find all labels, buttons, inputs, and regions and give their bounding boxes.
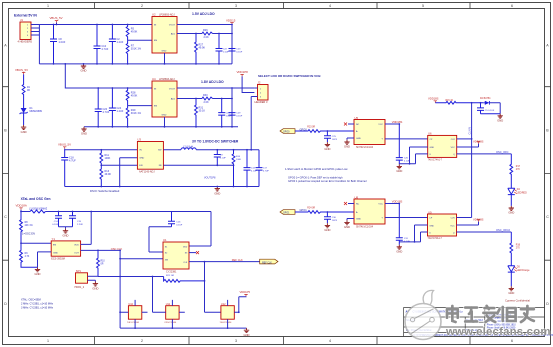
resistor R15 bbox=[435, 101, 483, 104]
wire R8 to Y1 EN bbox=[21, 242, 51, 244]
wire Y1 OUT bbox=[81, 249, 121, 251]
wire header pin3 to DCDC out bbox=[251, 97, 257, 150]
wire U4 GND stem bbox=[164, 117, 166, 127]
svg-text:GPO0: GPO0 bbox=[283, 132, 290, 134]
wire U3 pin2 tie bbox=[120, 158, 138, 187]
svg-text:R23 0R: R23 0R bbox=[307, 127, 315, 129]
svg-text:VCC: VCC bbox=[378, 204, 383, 206]
diode D2 bbox=[485, 101, 489, 105]
inductor L2 bbox=[164, 149, 182, 151]
wire U2 ADJ bbox=[177, 33, 232, 35]
wire VBUS feed to rail 2 bbox=[65, 64, 152, 88]
svg-text:6: 6 bbox=[511, 4, 513, 8]
capacitor C29 bbox=[229, 113, 236, 116]
svg-text:EN: EN bbox=[154, 105, 157, 107]
ground SP1 bbox=[92, 282, 98, 291]
LED D4 bbox=[508, 188, 515, 206]
svg-text:REF CLK: REF CLK bbox=[262, 262, 272, 264]
LED D5 bbox=[508, 266, 515, 287]
svg-text:GPO0 1 pulsed low coupled out: GPO0 1 pulsed low coupled out an Error C… bbox=[288, 179, 367, 183]
svg-text:D2 BAT54: D2 BAT54 bbox=[480, 97, 491, 100]
svg-text:74LVC1G34: 74LVC1G34 bbox=[220, 322, 233, 324]
wire Y1 GND to ground bbox=[38, 252, 52, 267]
svg-text:C5 0.1UF: C5 0.1UF bbox=[485, 110, 495, 112]
svg-text:VDD18A: VDD18A bbox=[16, 204, 27, 208]
ground C25 bbox=[324, 142, 330, 151]
svg-text:0.1UF: 0.1UF bbox=[251, 171, 258, 173]
wire U2 VOUT to VDD15 bbox=[177, 25, 232, 64]
wire R11/R13 junction to U3 EN bbox=[101, 164, 137, 166]
resistor R29 bbox=[126, 106, 129, 127]
capacitor C12 bbox=[109, 25, 116, 64]
svg-text:J2: J2 bbox=[258, 81, 261, 85]
no connect X on U1 bbox=[189, 252, 196, 254]
svg-text:49.9K: 49.9K bbox=[131, 31, 138, 34]
wire U8 GND pin bbox=[347, 219, 354, 221]
svg-text:CLR: CLR bbox=[451, 218, 456, 220]
watermark logo slashes bbox=[411, 309, 434, 335]
svg-text:1: 1 bbox=[47, 339, 49, 343]
capacitor C28 bbox=[218, 99, 225, 127]
svg-text:R15 1K: R15 1K bbox=[446, 100, 454, 102]
wire buffers ground rail bbox=[120, 327, 246, 329]
resistor R11 bbox=[100, 150, 103, 166]
wire clk branch to buffer U12 bbox=[205, 262, 221, 313]
svg-text:3 MHz: CY23B1, c1=10 MHz: 3 MHz: CY23B1, c1=10 MHz bbox=[21, 306, 54, 309]
svg-text:74LVC1G34: 74LVC1G34 bbox=[127, 322, 140, 324]
wire U8 VCC to VDD18S bbox=[385, 203, 399, 205]
svg-text:D: D bbox=[546, 302, 549, 306]
wire U9 GND tie bbox=[399, 225, 427, 242]
svg-text:10PF: 10PF bbox=[332, 139, 338, 141]
svg-text:2: 2 bbox=[141, 339, 143, 343]
svg-text:VDD18S: VDD18S bbox=[392, 200, 403, 204]
svg-text:C: C bbox=[4, 215, 7, 219]
svg-text:R30: R30 bbox=[203, 94, 208, 97]
svg-text:1-Shot Latch to Monitor GPO0 a: 1-Shot Latch to Monitor GPO0 and GPO1 pu… bbox=[285, 167, 348, 171]
svg-text:GND: GND bbox=[53, 252, 58, 254]
border row letters bbox=[4, 44, 549, 307]
svg-text:L2 6.8uH: L2 6.8uH bbox=[183, 146, 193, 149]
junction dots buffers bbox=[119, 258, 240, 329]
svg-text:1=OSC EN: 1=OSC EN bbox=[22, 231, 35, 235]
svg-text:0R: 0R bbox=[27, 90, 30, 92]
svg-text:R21 1M: R21 1M bbox=[166, 275, 174, 277]
svg-text:EN: EN bbox=[53, 244, 56, 246]
wire VBUS vertical join bbox=[38, 25, 40, 64]
wire dcdc input rail bbox=[65, 149, 138, 150]
resistor R9 bbox=[20, 243, 38, 267]
wire R5/R7 junction to U2 EN bbox=[128, 39, 152, 41]
wire ground rail 1 bbox=[39, 63, 232, 65]
svg-text:2.0K: 2.0K bbox=[204, 101, 209, 104]
wire U6 D tie low bbox=[410, 154, 428, 164]
junction dots U2 output bbox=[164, 24, 233, 65]
capacitor C20 bbox=[95, 88, 102, 127]
capacitor C24 bbox=[109, 88, 116, 127]
junction dots xtal bbox=[20, 211, 121, 252]
svg-text:4.7UF: 4.7UF bbox=[263, 171, 270, 173]
wire U5 Y to U6 CP bbox=[385, 138, 428, 140]
ground U8 bbox=[344, 220, 350, 229]
svg-text:2.0K: 2.0K bbox=[204, 36, 209, 39]
svg-text:MMSZ4689: MMSZ4689 bbox=[30, 110, 43, 113]
resistor R17 bbox=[510, 154, 513, 188]
svg-text:XTAL: OSC=SEM: XTAL: OSC=SEM bbox=[21, 299, 41, 302]
svg-text:CLR: CLR bbox=[451, 139, 456, 141]
watermark chinese glyphs bbox=[447, 306, 534, 322]
svg-text:External 5V IN: External 5V IN bbox=[14, 14, 37, 18]
capacitor C17 bbox=[256, 150, 263, 187]
svg-text:ECS-3953M: ECS-3953M bbox=[51, 258, 65, 261]
resistor R5 bbox=[126, 25, 129, 41]
svg-text:VCC: VCC bbox=[451, 147, 456, 149]
ground R9 bbox=[35, 267, 41, 276]
svg-text:R10: R10 bbox=[101, 261, 106, 263]
wire caps gnd tie bbox=[59, 227, 73, 229]
svg-text:ADJ: ADJ bbox=[171, 97, 175, 100]
wire U5 GND pin bbox=[347, 138, 354, 140]
junction dots latch2 bbox=[327, 203, 416, 243]
svg-text:VOUT: VOUT bbox=[169, 88, 176, 90]
svg-text:100K: 100K bbox=[236, 159, 242, 161]
svg-text:AAT1143-ADJ: AAT1143-ADJ bbox=[139, 171, 155, 174]
svg-text:49.9K: 49.9K bbox=[199, 47, 206, 50]
resistor R23 bbox=[295, 130, 354, 133]
ground RC network bbox=[497, 114, 503, 123]
capacitor C15 bbox=[69, 212, 76, 227]
svg-text:GND: GND bbox=[429, 226, 434, 228]
wire U1 VDD drop bbox=[189, 212, 211, 247]
ground rail 1 symbol bbox=[81, 64, 87, 73]
wire R21 tap vertical bbox=[152, 277, 154, 313]
svg-text:VDD15: VDD15 bbox=[226, 19, 236, 23]
wire VBUS 5V top rail bbox=[39, 24, 152, 26]
svg-text:VBUS_5V: VBUS_5V bbox=[50, 16, 63, 20]
wire U8 Y to U9 CP bbox=[385, 217, 428, 219]
resistor R27 bbox=[195, 34, 198, 64]
svg-text:1.0UF: 1.0UF bbox=[59, 41, 66, 44]
svg-text:EN: EN bbox=[154, 40, 157, 42]
ground C31 bbox=[396, 245, 402, 254]
resistor R21 bbox=[164, 277, 205, 283]
svg-text:GND: GND bbox=[162, 51, 167, 53]
svg-text:OSC_OFC: OSC_OFC bbox=[496, 150, 509, 154]
wire ground rail 2 bbox=[84, 126, 238, 128]
resistor R24 bbox=[295, 211, 354, 214]
svg-text:49.9K: 49.9K bbox=[105, 173, 112, 176]
resistor R7 bbox=[126, 40, 129, 64]
capacitor C31 bbox=[396, 204, 403, 245]
svg-text:74LVC74A1-7: 74LVC74A1-7 bbox=[428, 159, 443, 162]
ferrite bead L3 bbox=[21, 211, 30, 213]
svg-text:301K 1%: 301K 1% bbox=[131, 48, 142, 51]
capacitor C26 bbox=[396, 124, 403, 164]
resistor R28 bbox=[126, 88, 129, 106]
border column ticks bbox=[95, 3, 471, 345]
svg-text:4 HEADER5: 4 HEADER5 bbox=[18, 39, 33, 43]
junction dots rail 1 bbox=[53, 24, 129, 65]
svg-text:GND: GND bbox=[356, 138, 361, 140]
svg-text:5: 5 bbox=[422, 4, 424, 8]
resistor R16 bbox=[510, 232, 513, 266]
svg-text:VBUS_5V: VBUS_5V bbox=[15, 68, 28, 72]
resistor R8 bbox=[20, 212, 23, 244]
wire ground rail 3 bbox=[65, 186, 259, 188]
svg-text:U2: U2 bbox=[152, 13, 156, 17]
resistor R31 bbox=[195, 99, 198, 127]
resistor R26 bbox=[202, 32, 213, 35]
wire U1 CLK out to REF CLK port bbox=[189, 261, 260, 263]
wire osc distribution bbox=[98, 276, 164, 278]
svg-text:EN: EN bbox=[139, 165, 142, 167]
no connect U5 bbox=[348, 123, 354, 125]
svg-text:CLK: CLK bbox=[183, 262, 188, 264]
resistor R13 bbox=[100, 165, 103, 186]
svg-text:GND: GND bbox=[139, 158, 144, 160]
capacitor C13 bbox=[244, 150, 251, 187]
border row ticks bbox=[3, 87, 551, 261]
svg-text:VDD: VDD bbox=[183, 247, 188, 249]
svg-text:100K: 100K bbox=[105, 157, 111, 160]
svg-text:SN74LVC1G04: SN74LVC1G04 bbox=[356, 146, 374, 149]
capacitor C16 bbox=[168, 212, 175, 227]
svg-text:VDD1P5: VDD1P5 bbox=[240, 290, 251, 294]
svg-text:VDD18S: VDD18S bbox=[392, 120, 403, 124]
wire U9 VCC to VDD18S bbox=[457, 222, 479, 225]
svg-text:6: 6 bbox=[511, 339, 513, 343]
wire CLKIN vertical bbox=[471, 103, 473, 218]
svg-text:VOUT: VOUT bbox=[169, 24, 176, 26]
svg-text:1.2UF: 1.2UF bbox=[117, 110, 124, 113]
capacitor C27 bbox=[477, 103, 500, 114]
svg-text:GND: GND bbox=[162, 115, 167, 117]
svg-text:1.8V ADJ LDO: 1.8V ADJ LDO bbox=[201, 80, 224, 84]
svg-text:LED/Orange: LED/Orange bbox=[517, 269, 530, 272]
svg-text:CLKIN: CLKIN bbox=[468, 127, 471, 135]
title block outline bbox=[404, 307, 545, 336]
svg-text:CY22381: CY22381 bbox=[166, 270, 177, 273]
svg-text:4: 4 bbox=[329, 339, 331, 343]
svg-text:OUT: OUT bbox=[74, 252, 79, 254]
svg-text:HEADER 3: HEADER 3 bbox=[255, 100, 269, 104]
capacitor C22 bbox=[216, 34, 223, 64]
svg-text:2.2UF: 2.2UF bbox=[77, 224, 84, 226]
svg-text:REF CLK: REF CLK bbox=[232, 258, 243, 262]
wire SP1 pin2 to ground bbox=[88, 280, 96, 281]
svg-text:VBUS_5V: VBUS_5V bbox=[58, 143, 71, 147]
svg-text:www.elecfans.com: www.elecfans.com bbox=[445, 326, 551, 338]
svg-text:XTaL and OSC Gen: XTaL and OSC Gen bbox=[21, 197, 51, 201]
ground D5 bbox=[508, 286, 514, 295]
wire header pin1 bbox=[254, 87, 257, 89]
svg-text:R16: R16 bbox=[516, 245, 521, 247]
wire J1 pins to bus bbox=[31, 25, 39, 36]
watermark logo small circles bbox=[411, 318, 415, 322]
svg-text:D: D bbox=[4, 302, 7, 306]
svg-text:2 MHz: CY23B1, c1=10 MHz: 2 MHz: CY23B1, c1=10 MHz bbox=[21, 303, 54, 306]
svg-text:2: 2 bbox=[141, 4, 143, 8]
wire U6 VCC to VDD18S bbox=[457, 144, 479, 147]
svg-text:1.5V ADJ LDO: 1.5V ADJ LDO bbox=[192, 12, 215, 16]
svg-text:GPO0 1= GPO0-1: Pass DEF set t: GPO0 1= GPO0-1: Pass DEF set to stable h… bbox=[288, 175, 343, 179]
port GPIO1 bbox=[280, 210, 295, 215]
svg-text:74LVC1G34: 74LVC1G34 bbox=[164, 322, 177, 324]
watermark logo circle bbox=[423, 290, 433, 305]
svg-text:GPO1: GPO1 bbox=[283, 213, 290, 215]
wire U6 Q out bbox=[457, 153, 512, 155]
svg-text:30.1K: 30.1K bbox=[199, 110, 206, 113]
capacitor C25 bbox=[324, 131, 331, 142]
wire VDD18A rail bbox=[45, 211, 211, 213]
resistor R30 bbox=[202, 97, 213, 100]
svg-text:1: 1 bbox=[47, 4, 49, 8]
resistor R14 bbox=[232, 150, 235, 187]
ground U5 bbox=[344, 140, 350, 149]
svg-text:0.1UF: 0.1UF bbox=[52, 224, 59, 226]
ground rail 3 symbol bbox=[214, 187, 220, 196]
svg-text:C: C bbox=[546, 215, 549, 219]
svg-text:DS=0: Switcher Enabled: DS=0: Switcher Enabled bbox=[90, 189, 120, 193]
svg-text:HDR1_2: HDR1_2 bbox=[75, 286, 85, 289]
svg-text:VDD1P8: VDD1P8 bbox=[237, 70, 249, 74]
svg-text:R24 0R: R24 0R bbox=[307, 208, 315, 210]
wire SP1 pin1 bbox=[88, 275, 99, 277]
svg-text:VCC: VCC bbox=[450, 226, 455, 228]
wire U2 GND stem bbox=[164, 53, 166, 64]
junction dots latch1 bbox=[327, 102, 482, 165]
port REF CLK bbox=[260, 259, 278, 264]
ground buffers bbox=[244, 328, 250, 337]
svg-text:0.1UF: 0.1UF bbox=[176, 224, 183, 226]
svg-text:0.1UF: 0.1UF bbox=[236, 116, 243, 118]
capacitor C10 bbox=[94, 25, 101, 64]
wire U4 ADJ bbox=[177, 98, 232, 100]
svg-text:VCC: VCC bbox=[378, 124, 383, 126]
svg-text:74LVC74A1-7: 74LVC74A1-7 bbox=[428, 237, 443, 240]
capacitor C23 bbox=[229, 49, 236, 52]
ground C26 bbox=[396, 164, 402, 173]
ground D4 bbox=[508, 206, 514, 215]
svg-text:3: 3 bbox=[235, 339, 237, 343]
svg-text:OSC_OFC2: OSC_OFC2 bbox=[496, 228, 511, 232]
svg-text:VDD: VDD bbox=[74, 244, 79, 246]
wire U4 VOUT to select header bbox=[177, 88, 254, 127]
svg-text:1.0UF: 1.0UF bbox=[223, 51, 230, 53]
ground xtal caps bbox=[63, 229, 69, 238]
svg-text:301K 1%: 301K 1% bbox=[131, 112, 142, 115]
svg-text:LED/RED: LED/RED bbox=[517, 192, 527, 194]
svg-text:VDD18S: VDD18S bbox=[428, 96, 439, 100]
svg-text:VOUT1P8: VOUT1P8 bbox=[204, 177, 216, 180]
svg-text:0R: 0R bbox=[101, 264, 104, 266]
svg-text:ADJ: ADJ bbox=[171, 32, 175, 35]
wire Y1 VDD bbox=[81, 212, 92, 245]
svg-text:10PF: 10PF bbox=[332, 220, 338, 222]
svg-text:3: 3 bbox=[235, 4, 237, 8]
port GPIO0 bbox=[280, 129, 295, 134]
svg-text:NC: NC bbox=[356, 124, 360, 126]
wire C16 gnd return bbox=[149, 227, 172, 252]
wire VDD1P8 to header pin2 bbox=[242, 76, 254, 92]
ground D1 bbox=[21, 125, 27, 134]
wire clk into U1 bbox=[120, 258, 163, 260]
wire U9 CLR to CLKIN bbox=[457, 217, 472, 219]
svg-text:R26: R26 bbox=[203, 29, 208, 32]
no connect U8 bbox=[348, 203, 354, 205]
resistor R1 bbox=[22, 74, 25, 106]
capacitor C8 bbox=[50, 25, 57, 64]
ground rail 2 symbol bbox=[81, 127, 87, 136]
resistor R10 bbox=[97, 250, 100, 276]
svg-text:4.7UF: 4.7UF bbox=[102, 48, 109, 51]
svg-text:0.1UF: 0.1UF bbox=[236, 51, 243, 53]
wire U6 GND tie bbox=[399, 147, 427, 164]
junction dots dcdc bbox=[100, 149, 252, 188]
svg-text:L3 620@100MHZ: L3 620@100MHZ bbox=[29, 209, 48, 211]
svg-text:4.7UF: 4.7UF bbox=[103, 111, 110, 114]
svg-text:1.2UF: 1.2UF bbox=[117, 41, 124, 44]
wire U5 VCC to VDD18S bbox=[385, 123, 399, 125]
svg-text:0.1UF: 0.1UF bbox=[220, 158, 227, 160]
title block address bbox=[487, 313, 517, 329]
svg-text:GND: GND bbox=[356, 219, 361, 221]
svg-text:Cypress Confidential: Cypress Confidential bbox=[505, 298, 530, 302]
wire dcdc output rail bbox=[196, 149, 259, 151]
svg-text:NC: NC bbox=[356, 204, 360, 206]
svg-text:4: 4 bbox=[329, 4, 331, 8]
svg-text:3V TO 1.8VDC-DC SWITCHER: 3V TO 1.8VDC-DC SWITCHER bbox=[192, 140, 239, 144]
svg-text:4.7K: 4.7K bbox=[25, 256, 30, 258]
svg-text:GND: GND bbox=[430, 147, 435, 149]
svg-text:R17: R17 bbox=[516, 166, 521, 168]
wire R28/R29 junction to U4 EN bbox=[128, 105, 152, 107]
wire clk vertical bus bbox=[119, 250, 121, 328]
capacitor C30 bbox=[324, 212, 331, 223]
wire VDD1P5 stub bbox=[239, 296, 246, 312]
svg-text:SN74LVC1G04: SN74LVC1G04 bbox=[356, 225, 374, 228]
svg-text:SELECT LDO OR DC/DC SWITCHER I: SELECT LDO OR DC/DC SWITCHER IN VCB bbox=[258, 74, 321, 78]
wire U3 FB bbox=[164, 164, 234, 166]
wire U6 CLR to CLKIN bbox=[457, 138, 472, 140]
svg-text:4.7UF: 4.7UF bbox=[69, 160, 76, 163]
capacitor C14 bbox=[55, 212, 62, 227]
svg-text:24K 1%: 24K 1% bbox=[25, 225, 33, 227]
svg-text:1.0UF: 1.0UF bbox=[226, 116, 233, 118]
ground C30 bbox=[324, 223, 330, 232]
svg-text:49.9K: 49.9K bbox=[131, 94, 138, 97]
junction dots U4 bbox=[64, 63, 233, 128]
capacitor C9 bbox=[214, 150, 221, 166]
wire U9 Q out bbox=[457, 231, 512, 233]
svg-text:XIN: XIN bbox=[165, 259, 169, 261]
wire U9 D tie low bbox=[415, 232, 428, 242]
capacitor C18 bbox=[61, 150, 68, 187]
